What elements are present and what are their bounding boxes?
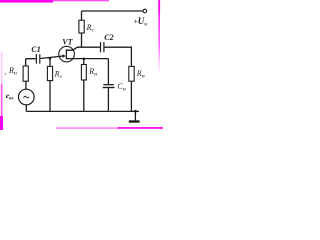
wire: Ci branch xyxy=(107,59,109,84)
svg-text:+Uи: +Uи xyxy=(133,16,147,28)
resistor Rc xyxy=(79,20,84,33)
scan mark: bottom pink line right part xyxy=(118,127,163,129)
svg-text:C2: C2 xyxy=(104,33,113,42)
svg-text:Rс: Rс xyxy=(86,23,95,34)
svg-text:Cи: Cи xyxy=(117,82,125,93)
wire: Rc bottom lead to drain node xyxy=(81,33,83,47)
resistor Rz (gate) xyxy=(47,66,52,80)
wire: top supply rail xyxy=(82,10,143,12)
wire: bottom common rail xyxy=(26,110,139,112)
wire: gate line and source wire xyxy=(26,56,109,59)
wire: Rn bottom lead xyxy=(130,81,132,111)
svg-text:eвх: eвх xyxy=(6,91,14,102)
wire: C2 to load xyxy=(105,47,132,66)
svg-text:VT: VT xyxy=(62,38,73,47)
scan mark: left bottom magenta bar xyxy=(0,116,3,130)
junction dot Ri xyxy=(83,58,86,61)
capacitor Ci xyxy=(103,84,113,85)
junction dot ground xyxy=(134,110,137,113)
wire: drain lead to C2 xyxy=(66,47,100,50)
wire: Ri branch (source resistor) xyxy=(83,59,85,65)
transistor gate arrow xyxy=(63,54,66,58)
AC source tilde xyxy=(24,96,30,98)
AC source e_vx xyxy=(19,89,35,105)
resistor Rn (load) xyxy=(129,66,134,81)
wire: AC source bottom lead xyxy=(25,105,27,112)
wire: Ri bottom lead xyxy=(83,80,85,111)
scan mark: bottom pink line left part xyxy=(56,127,119,129)
scan mark: top magenta bar xyxy=(0,0,53,3)
resistor Ri (generator internal) xyxy=(23,66,28,81)
junction dot Rz xyxy=(49,57,52,60)
ground bar xyxy=(129,120,140,122)
capacitor C2 xyxy=(100,42,101,52)
wire: Ci bottom lead xyxy=(107,88,109,111)
capacitor C1 xyxy=(36,54,37,64)
terminal +U circle xyxy=(143,9,147,13)
wire: to AC source xyxy=(25,81,27,89)
wire: Rz branch xyxy=(49,57,51,66)
transistor channel bar xyxy=(66,49,67,59)
svg-text:Rи: Rи xyxy=(88,67,97,78)
resistor Ri (source) xyxy=(81,65,86,81)
ground stem xyxy=(134,111,136,120)
stray ink dot xyxy=(5,73,7,75)
svg-text:Rз: Rз xyxy=(54,70,62,81)
wire: Rc top lead xyxy=(81,11,83,20)
scan mark: top thin pink line xyxy=(53,0,109,1)
transistor VT (FET) xyxy=(59,46,75,62)
svg-text:Rн: Rн xyxy=(136,69,145,80)
wire: left source column up lead xyxy=(25,59,27,66)
wire: Rz bottom lead xyxy=(49,81,51,112)
svg-text:C1: C1 xyxy=(31,45,40,54)
scan mark: left thin pink line xyxy=(1,52,2,84)
svg-text:Rи: Rи xyxy=(8,66,17,77)
scan mark: right magenta line xyxy=(158,0,160,13)
